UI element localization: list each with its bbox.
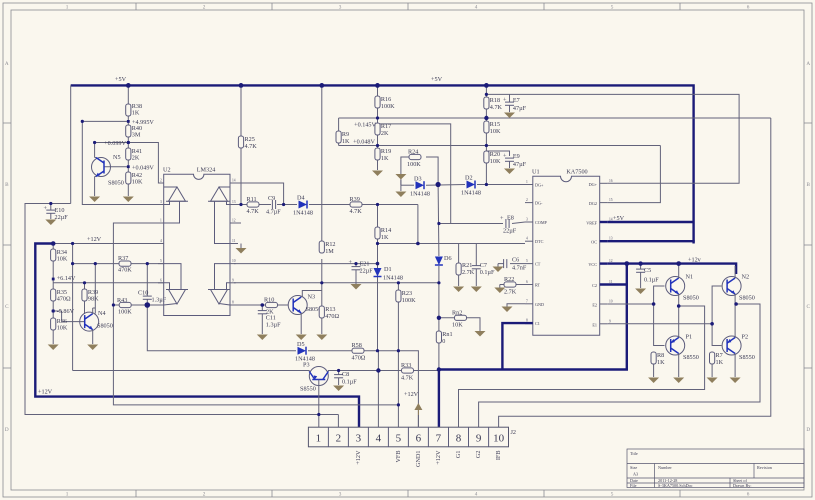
wire R24 loop <box>401 157 409 185</box>
wire D3 D2 line to U1 pin1 <box>401 184 414 186</box>
svg-text:470Ω: 470Ω <box>325 313 339 320</box>
svg-text:R8: R8 <box>657 352 664 359</box>
diode D1 1N4148 <box>374 266 403 282</box>
svg-text:VFB: VFB <box>395 451 402 463</box>
svg-text:DG+: DG+ <box>589 182 598 187</box>
wire +0.145V line <box>378 124 451 224</box>
wire +0.099V N5 collector line <box>95 143 164 184</box>
connector J2 <box>308 427 516 447</box>
svg-text:File: File <box>630 483 637 488</box>
ground below C7 <box>471 287 482 293</box>
wire U2 pin1 to W1 <box>234 183 284 205</box>
capacitor E21 <box>349 259 374 284</box>
resistor R37 <box>118 255 132 274</box>
svg-text:DTC: DTC <box>535 239 544 244</box>
svg-text:D: D <box>5 427 9 433</box>
resistor R13 <box>319 306 339 334</box>
resistor R35 <box>51 289 71 303</box>
svg-text:10: 10 <box>232 259 236 263</box>
svg-text:E2: E2 <box>592 303 597 308</box>
svg-text:IFB: IFB <box>495 451 502 461</box>
svg-text:4: 4 <box>475 492 478 498</box>
svg-text:S8550: S8550 <box>300 386 316 393</box>
svg-text:+12V: +12V <box>38 389 53 396</box>
resistor Rn2 <box>452 310 467 329</box>
svg-text:6: 6 <box>160 278 162 282</box>
wire Rn2 line <box>439 317 455 319</box>
node +0.049V <box>127 165 155 172</box>
wire G2 net <box>479 304 760 427</box>
svg-text:P3: P3 <box>303 362 310 369</box>
wire N3 collector to R13 <box>302 291 322 298</box>
svg-text:E9: E9 <box>513 153 520 160</box>
svg-text:2K: 2K <box>132 155 140 162</box>
svg-text:COMP: COMP <box>535 220 548 225</box>
resistor R21 2.7K <box>456 244 475 287</box>
svg-text:+12V: +12V <box>87 236 102 243</box>
wire C7cap top stub <box>509 94 511 102</box>
wire R14 bottom to D1 <box>377 239 379 268</box>
node +12V dot <box>51 236 102 246</box>
svg-text:B: B <box>806 182 810 188</box>
resistor R42 <box>126 172 143 186</box>
wire D1 bottom to D5 line <box>377 277 379 351</box>
wire R37 line to U2 pin5 <box>73 263 164 265</box>
svg-text:R33: R33 <box>401 362 411 369</box>
ground below P2 <box>730 378 741 384</box>
transistor P1 S8550 <box>666 334 699 378</box>
op-amp U2 LM324 box <box>163 167 230 316</box>
node +6.14V <box>52 275 76 282</box>
wire C10 branch <box>146 264 148 296</box>
wire +6.14V line to U2 pin6 <box>53 282 164 284</box>
title block <box>627 449 804 488</box>
ground below C5 <box>635 289 646 295</box>
transistor N1 S8050 <box>666 264 699 338</box>
diode D5 1N4148 <box>295 341 315 363</box>
resistor R39 4.7K <box>350 196 363 215</box>
svg-text:VCC: VCC <box>588 262 597 267</box>
resistor Rn1 <box>436 331 452 345</box>
svg-text:4.7K: 4.7K <box>245 143 258 150</box>
capacitor C6 4.7nF <box>498 257 527 272</box>
svg-text:11: 11 <box>232 239 236 243</box>
capacitor E7 47uF <box>503 97 527 113</box>
svg-text:P2: P2 <box>742 334 749 341</box>
svg-text:2: 2 <box>203 492 206 498</box>
svg-text:C5: C5 <box>644 267 651 274</box>
svg-text:DG-: DG- <box>535 201 543 206</box>
resistor R40 <box>126 125 142 139</box>
wire E2 pin10 to driver bases <box>608 303 654 305</box>
diode D3 1N4148 <box>410 176 430 198</box>
wire R38 R40 R41 R42 column <box>127 85 129 104</box>
wire R34 R35 R36 column <box>52 244 54 250</box>
wire R12 bottom to W3 <box>321 259 323 283</box>
svg-text:+5V: +5V <box>613 215 625 222</box>
resistor R24 <box>407 149 421 169</box>
wire +12V branch down left <box>72 244 74 371</box>
svg-text:+12V: +12V <box>355 450 362 465</box>
ground at U1 GND pin7 <box>502 304 526 312</box>
svg-text:7: 7 <box>526 299 528 303</box>
wire +12V to P3 emitter <box>73 370 310 372</box>
ground below E7 <box>504 113 515 119</box>
diode D2 1N4148 <box>461 175 481 197</box>
svg-text:1: 1 <box>66 492 69 498</box>
svg-text:6: 6 <box>747 492 750 498</box>
resistor R19 <box>375 148 391 170</box>
svg-text:RT: RT <box>535 283 541 288</box>
resistor R39b 98K <box>82 289 99 303</box>
svg-text:0.1µF: 0.1µF <box>342 379 357 386</box>
resistor R38 <box>126 103 142 117</box>
svg-text:5: 5 <box>611 5 614 11</box>
svg-text:R11: R11 <box>247 196 257 203</box>
svg-text:E8: E8 <box>507 215 514 222</box>
svg-text:Rn2: Rn2 <box>452 310 462 317</box>
svg-text:R17: R17 <box>381 123 391 130</box>
wire IFB net <box>499 118 771 427</box>
svg-text:22µF: 22µF <box>55 214 69 221</box>
svg-text:E7: E7 <box>513 97 520 104</box>
wire E1 pin9 to driver bases <box>608 323 712 325</box>
svg-text:5: 5 <box>526 259 528 263</box>
svg-text:+5V: +5V <box>115 76 127 83</box>
svg-text:E10: E10 <box>55 207 65 214</box>
svg-text:2: 2 <box>203 5 206 11</box>
wire R12 column from +5V <box>321 85 323 241</box>
ground below N3 <box>296 335 307 341</box>
wire U2 pin feedback to bottom bus <box>113 223 398 405</box>
svg-text:3: 3 <box>526 218 528 222</box>
wire amp2 output node to U2 pin7 <box>147 304 163 306</box>
wire R18 C7 node to U1 pin16 <box>486 94 739 183</box>
ground D3 anode lower <box>395 185 406 197</box>
svg-text:S8050: S8050 <box>108 180 124 187</box>
wire P3 to R33 to +12V <box>328 370 439 372</box>
svg-text:DG2: DG2 <box>589 201 597 206</box>
svg-text:10K: 10K <box>490 128 501 135</box>
svg-text:13: 13 <box>609 237 613 241</box>
svg-text:6: 6 <box>526 280 528 284</box>
svg-text:S8050: S8050 <box>739 295 755 302</box>
wire DTC line <box>378 243 526 245</box>
ground D3 anode upper <box>395 174 406 185</box>
svg-text:J2: J2 <box>511 429 517 436</box>
wire P3 base to connector pin1 <box>318 386 320 427</box>
resistor R18 <box>484 97 503 111</box>
svg-text:1K: 1K <box>381 155 389 162</box>
ground below N5 emitter <box>89 197 100 203</box>
svg-text:R9: R9 <box>342 131 349 138</box>
svg-text:D6: D6 <box>444 255 452 262</box>
svg-text:1N4148: 1N4148 <box>383 275 403 282</box>
svg-text:C9: C9 <box>268 195 275 202</box>
ground below R19 <box>372 171 383 177</box>
resistor R11 <box>247 196 260 215</box>
resistor R23 <box>396 290 416 304</box>
svg-text:11: 11 <box>609 280 613 284</box>
svg-text:+12V: +12V <box>404 391 419 398</box>
wire VREF pin14 to +5V bus (thick) <box>608 221 694 223</box>
svg-text:Drawn By:: Drawn By: <box>733 483 752 488</box>
ground below E21 <box>351 284 362 290</box>
svg-text:C8: C8 <box>342 371 349 378</box>
svg-text:9: 9 <box>476 433 482 445</box>
svg-text:4.7nF: 4.7nF <box>512 265 527 272</box>
svg-text:1K: 1K <box>657 359 665 366</box>
svg-text:4.7µF: 4.7µF <box>266 209 281 216</box>
op-amp A up-triangle 1 <box>164 187 188 223</box>
svg-text:N5: N5 <box>113 154 121 161</box>
svg-text:C10: C10 <box>138 290 148 297</box>
capacitor C10 <box>138 290 167 304</box>
svg-text:1: 1 <box>526 180 528 184</box>
svg-text:+5V: +5V <box>431 76 443 83</box>
node -5.86V <box>52 308 75 315</box>
svg-text:P1: P1 <box>686 334 693 341</box>
svg-text:0.1µF: 0.1µF <box>644 277 659 284</box>
diode D4 1N4148 <box>293 195 313 217</box>
capacitor C5 0.1uF <box>636 264 659 288</box>
svg-text:C7: C7 <box>480 262 487 269</box>
svg-text:Revision: Revision <box>757 465 773 470</box>
svg-text:12: 12 <box>232 219 236 223</box>
ground below R42 <box>123 197 134 203</box>
wire VCC +12V line (thick) <box>608 264 736 274</box>
capacitor E9 47uF <box>503 153 527 169</box>
svg-text:D5: D5 <box>297 341 305 348</box>
svg-text:2: 2 <box>526 198 528 202</box>
svg-text:3M: 3M <box>132 132 141 139</box>
svg-text:C6: C6 <box>512 257 519 264</box>
svg-text:+0.048V: +0.048V <box>353 139 375 146</box>
svg-text:0.1µF: 0.1µF <box>480 269 495 276</box>
wire R16 column <box>377 85 379 96</box>
wire R10 line U2 pin to N3 base <box>234 304 266 306</box>
wire +5V rail (thick) <box>71 85 694 243</box>
svg-text:98K: 98K <box>88 296 99 303</box>
transistor N3 S8050 <box>288 294 321 335</box>
resistor R7 <box>710 352 724 377</box>
ground below E10 <box>45 220 56 226</box>
svg-text:1.3µF: 1.3µF <box>266 322 281 329</box>
svg-text:4: 4 <box>376 433 382 445</box>
resistor R14 <box>375 227 391 241</box>
svg-text:R23: R23 <box>402 290 412 297</box>
svg-text:100K: 100K <box>381 103 395 110</box>
svg-text:R39: R39 <box>350 196 360 203</box>
svg-text:DG+: DG+ <box>535 183 544 188</box>
svg-text:+: + <box>503 97 507 104</box>
ground below C8 <box>333 386 344 392</box>
svg-text:5: 5 <box>611 492 614 498</box>
svg-text:A3: A3 <box>633 472 638 477</box>
wire R39b column <box>84 283 86 289</box>
svg-text:15: 15 <box>609 198 613 202</box>
wire R14 tap from W1 <box>377 205 379 228</box>
svg-text:A: A <box>5 61 9 67</box>
U1 pin stubs left <box>525 180 548 326</box>
svg-text:4.7K: 4.7K <box>401 375 414 382</box>
ground at C6 <box>493 267 504 273</box>
wire N4 collector to R37 line <box>94 264 96 314</box>
svg-text:+: + <box>503 153 507 160</box>
wire left loop to bottom line <box>25 204 338 415</box>
resistor R33 <box>401 362 414 382</box>
svg-text:4.7K: 4.7K <box>490 104 503 111</box>
svg-text:10: 10 <box>609 300 613 304</box>
svg-text:N1: N1 <box>686 274 694 281</box>
resistor R17 <box>375 123 391 137</box>
svg-text:R15: R15 <box>490 121 500 128</box>
capacitor E10 <box>44 204 69 222</box>
svg-text:+0.049V: +0.049V <box>132 165 154 172</box>
wire E9 tie <box>486 151 509 156</box>
wire W2 U2 to R14 node <box>234 263 378 265</box>
svg-text:3: 3 <box>356 433 362 445</box>
svg-text:C2: C2 <box>592 283 597 288</box>
svg-text:2.7K: 2.7K <box>504 289 517 296</box>
resistor R25 <box>238 136 257 150</box>
wire VFB riser to connector pin5 <box>397 405 399 427</box>
svg-text:-5.86V: -5.86V <box>57 308 75 315</box>
wire N4 base route <box>53 311 85 322</box>
svg-text:1N4148: 1N4148 <box>461 190 481 197</box>
U1 pin stubs right <box>586 179 627 327</box>
wire +12V to U2 pin4 <box>53 243 164 245</box>
svg-text:GND: GND <box>535 302 544 307</box>
svg-text:4: 4 <box>526 237 528 241</box>
svg-text:22µF: 22µF <box>360 268 374 275</box>
svg-text:10K: 10K <box>490 158 501 165</box>
svg-text:+12V: +12V <box>435 450 442 465</box>
svg-text:U1: U1 <box>532 169 540 176</box>
wire D5 line to R58 <box>308 350 352 352</box>
resistor R58 <box>352 342 366 362</box>
svg-text:VREF: VREF <box>586 221 597 226</box>
connector pin labels rotated <box>355 450 502 467</box>
svg-text:9: 9 <box>232 278 234 282</box>
svg-text:R14: R14 <box>381 227 391 234</box>
wire N1 P1 base tie <box>654 286 665 346</box>
wire R9 column <box>338 118 340 131</box>
transistor N4 S8050 <box>80 308 113 344</box>
svg-text:12: 12 <box>609 259 613 263</box>
transistor P3 S8550 rotated <box>300 362 328 393</box>
wire R58 to GND1 riser <box>364 351 418 427</box>
svg-text:47µF: 47µF <box>513 105 527 112</box>
svg-text:+6.14V: +6.14V <box>57 275 76 282</box>
svg-text:1M: 1M <box>325 248 334 255</box>
wire +12V drop to output stage (thick) <box>439 264 627 427</box>
svg-text:C1: C1 <box>535 321 540 326</box>
svg-text:16: 16 <box>609 179 613 183</box>
IC U1 KA7500 box <box>532 169 600 336</box>
wire E8 line to COMP pin3 <box>439 223 503 225</box>
svg-text:D1: D1 <box>384 266 392 273</box>
svg-text:R24: R24 <box>408 149 418 156</box>
ground below C11 <box>257 335 268 341</box>
svg-text:R22: R22 <box>504 276 514 283</box>
wire +0.048V to U1 pin15 <box>608 146 661 203</box>
resistor R12 <box>319 241 335 255</box>
svg-text:R43: R43 <box>117 297 127 304</box>
resistor R36 <box>51 318 68 332</box>
svg-text:3: 3 <box>160 200 162 204</box>
node +0.145V <box>354 122 376 129</box>
svg-text:C: C <box>5 304 9 310</box>
resistor R43 <box>117 297 132 316</box>
ground below R7 <box>707 378 718 384</box>
svg-text:C11: C11 <box>266 315 276 322</box>
svg-text:4.7K: 4.7K <box>247 208 260 215</box>
svg-text:1K: 1K <box>716 359 724 366</box>
ground at Rn2 <box>475 331 486 337</box>
diode D6 <box>435 255 452 265</box>
ground at R22 <box>494 288 505 294</box>
svg-text:+: + <box>349 259 353 266</box>
svg-text:R18: R18 <box>490 97 500 104</box>
wire connector pin4 riser <box>377 351 379 427</box>
wire +0.048V line <box>339 145 661 147</box>
resistor R10 <box>264 297 278 316</box>
capacitor C11 <box>258 305 281 334</box>
svg-text:Rn1: Rn1 <box>442 331 452 338</box>
wire +5V left drop <box>70 85 72 203</box>
svg-text:R13: R13 <box>325 306 335 313</box>
svg-text:5: 5 <box>160 259 162 263</box>
svg-text:4: 4 <box>160 239 162 243</box>
wire G1 net <box>459 306 705 427</box>
svg-text:2: 2 <box>160 179 162 183</box>
capacitor C9 <box>266 195 281 216</box>
wire R17 R19 column <box>377 135 379 148</box>
resistor R41 <box>126 148 142 162</box>
svg-text:4.7K: 4.7K <box>350 208 363 215</box>
capacitor E8 22uF <box>500 215 517 235</box>
svg-text:C: C <box>806 304 810 310</box>
svg-text:OC: OC <box>591 240 597 245</box>
svg-text:1: 1 <box>160 219 162 223</box>
svg-text:3: 3 <box>339 492 342 498</box>
ground below R8 <box>648 378 659 384</box>
svg-text:S8550: S8550 <box>739 354 755 361</box>
svg-text:10K: 10K <box>57 325 68 332</box>
svg-text:8: 8 <box>456 433 462 445</box>
svg-text:D2: D2 <box>465 175 473 182</box>
svg-text:+0.145V: +0.145V <box>354 122 376 129</box>
svg-text:10K: 10K <box>57 256 68 263</box>
ground U2 pin11 <box>236 244 247 254</box>
op-amp C down-triangle 1 <box>164 264 188 305</box>
svg-text:100K: 100K <box>402 297 416 304</box>
svg-text:R25: R25 <box>245 136 255 143</box>
ground below R13 <box>316 335 327 341</box>
wire +4.995V to U2 pin2 <box>82 121 163 204</box>
svg-text:1: 1 <box>66 5 69 11</box>
svg-text:10: 10 <box>493 433 505 445</box>
svg-text:N4: N4 <box>98 310 106 317</box>
capacitor C8 <box>334 371 357 386</box>
wire divider line y118 <box>339 117 771 119</box>
svg-text:+: + <box>500 215 504 222</box>
svg-text:KA7500: KA7500 <box>566 169 587 176</box>
capacitor C7 0.1uF <box>472 244 495 287</box>
svg-text:0: 0 <box>442 338 445 345</box>
svg-text:GND1: GND1 <box>415 451 422 468</box>
